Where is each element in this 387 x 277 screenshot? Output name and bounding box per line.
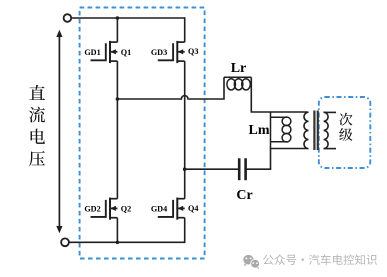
transistor Q2 drain stub (110, 198, 117, 200)
transistor Q1 drain stub (110, 41, 117, 43)
wire bottom rail (transformer primary bottom) (246, 149, 307, 170)
wire Lr to transformer top rail (251, 77, 307, 112)
transistor Q4 channel (176, 198, 178, 220)
wire bottom bus (69, 241, 185, 243)
watermark text 公众号·汽车电控知识 (263, 254, 377, 265)
wire top bus (71, 17, 185, 19)
transistor Q3 source stub (177, 60, 184, 62)
terminal circle bottom (61, 238, 69, 246)
svg-text:Q4: Q4 (188, 204, 198, 213)
transistor Q1 channel (109, 41, 111, 63)
transistor Q3 drain stub (177, 41, 184, 43)
terminal circle top (64, 14, 72, 22)
primary-side dashed enclosure box (80, 8, 205, 259)
wire leg A mid: Q1 source to Q2 drain (node A) (116, 61, 118, 199)
secondary-side dashed box (次级) (319, 97, 371, 168)
svg-text:Lr: Lr (231, 61, 247, 76)
wire node B to Cr (185, 168, 239, 170)
transistor Q4 source stub (177, 217, 184, 219)
transistor Q2 source stub (110, 217, 117, 219)
transistor Q1 source stub (110, 60, 117, 62)
transistor Q4 gate lead (158, 200, 173, 217)
transistor Q2 gate lead (91, 200, 106, 217)
svg-text:GD4: GD4 (151, 205, 167, 214)
node B junction dot (183, 167, 187, 171)
wire leg B mid: Q3 source to Q4 drain (node B) (184, 61, 186, 199)
watermark icon speech bubbles (243, 255, 260, 269)
wire leg A: top bus to Q1 drain (116, 18, 118, 42)
svg-text:Q2: Q2 (121, 205, 131, 214)
DC voltage double-headed arrow (56, 30, 62, 233)
node junction dot top bus / leg A (116, 16, 120, 20)
svg-text:GD2: GD2 (84, 205, 100, 214)
label 直流电压 (DC voltage) (29, 85, 45, 166)
wire leg B: Q4 source to bottom bus (184, 218, 186, 243)
transistor Q3 gate lead (158, 43, 173, 60)
svg-text:GD1: GD1 (84, 48, 100, 57)
svg-text:GD3: GD3 (151, 48, 167, 57)
node A junction dot (116, 97, 120, 101)
wire leg B: top bus corner to Q3 drain (184, 17, 186, 42)
transistor Q2 body stub with arrow (110, 207, 117, 209)
transistor Q1 body stub with arrow (110, 51, 117, 53)
wire node A to Lr with hop over leg B (117, 77, 224, 99)
transformer secondary winding (324, 112, 329, 148)
wire secondary bottom lead (324, 148, 336, 150)
svg-text:Q3: Q3 (188, 47, 198, 56)
transistor Q3 body stub with arrow (177, 51, 184, 53)
capacitor Cr (238, 158, 241, 180)
transistor Q2 channel (109, 198, 111, 220)
transistor Q4 body stub with arrow (177, 207, 184, 209)
svg-text:Q1: Q1 (121, 48, 131, 57)
svg-text:Cr: Cr (236, 188, 252, 203)
inductor Lm branch (271, 112, 291, 149)
wire secondary top lead (324, 111, 336, 113)
svg-text:Lm: Lm (249, 123, 270, 138)
label 次级 (secondary) (339, 113, 352, 141)
transistor Q4 drain stub (177, 198, 184, 200)
transistor Q1 gate lead (91, 43, 106, 60)
transformer core (313, 111, 315, 151)
node junction dot bottom bus / leg A (116, 241, 120, 245)
transistor Q3 channel (176, 41, 178, 63)
transformer primary winding (304, 112, 309, 148)
inductor Lr (224, 77, 251, 90)
wire leg A: Q2 source to bottom bus (116, 218, 118, 243)
